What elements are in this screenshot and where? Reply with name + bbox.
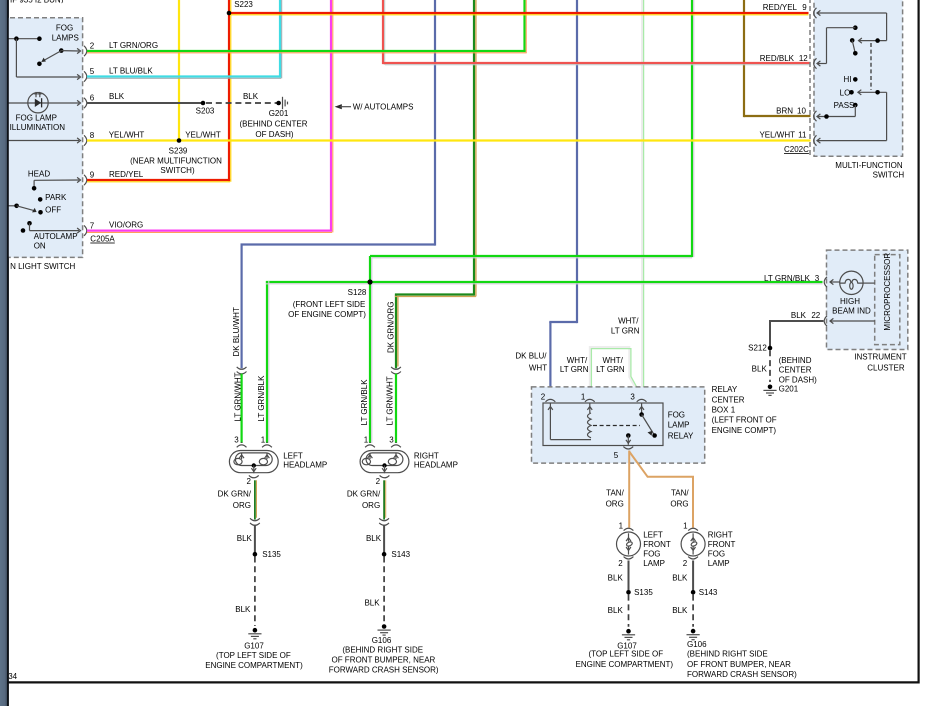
svg-text:SWITCH): SWITCH): [160, 166, 195, 175]
svg-text:ORG: ORG: [362, 501, 380, 510]
svg-text:G106: G106: [687, 640, 707, 649]
svg-text:BLK: BLK: [237, 534, 253, 543]
svg-text:CENTER: CENTER: [712, 395, 745, 404]
fog lamp illumination LED: [9, 102, 80, 104]
svg-text:S143: S143: [699, 588, 718, 597]
fog lamp relay contact and blade: [641, 403, 643, 415]
svg-text:LEFT: LEFT: [283, 451, 303, 460]
svg-text:LT GRN/BLK: LT GRN/BLK: [257, 375, 266, 422]
wire BRN multi-function switch pin10: [744, 115, 811, 117]
splice S143 right fog lamp: [691, 590, 696, 595]
svg-text:DK GRN/: DK GRN/: [347, 489, 381, 498]
splice S212: [768, 346, 773, 351]
svg-text:ENGINE COMPT): ENGINE COMPT): [712, 426, 777, 435]
svg-text:PARK: PARK: [45, 193, 67, 202]
svg-text:RED/YEL: RED/YEL: [109, 170, 144, 179]
w/ autolamps arrow note: [335, 104, 342, 109]
wire BLK dashed right fog lamp to G106: [692, 595, 694, 627]
svg-text:DK GRN/: DK GRN/: [218, 489, 252, 498]
instrument cluster pin22 BLK wire: [824, 316, 827, 326]
svg-text:11: 11: [798, 131, 807, 140]
svg-text:FORWARD CRASH SENSOR): FORWARD CRASH SENSOR): [329, 665, 439, 674]
wire RED/YEL pin9 to S223 and multi-function switch: [87, 179, 230, 181]
inline connector right headlamp pin2: [379, 518, 389, 520]
instrument cluster box: [827, 250, 908, 349]
svg-text:FRONT: FRONT: [708, 540, 736, 549]
high beam indicator bulb: [824, 277, 827, 287]
svg-text:S135: S135: [634, 588, 653, 597]
splice S135 left fog lamp: [626, 590, 631, 595]
svg-text:LT GRN/BLK: LT GRN/BLK: [764, 274, 811, 283]
svg-text:YEL/WHT: YEL/WHT: [109, 130, 145, 139]
svg-text:ORG: ORG: [233, 501, 251, 510]
svg-text:VIO/ORG: VIO/ORG: [109, 220, 143, 229]
pin 8 internal lead: [9, 140, 80, 142]
right front fog lamp: [681, 532, 705, 556]
svg-text:LAMPS: LAMPS: [52, 34, 79, 43]
svg-text:YEL/WHT: YEL/WHT: [185, 130, 221, 139]
svg-text:S203: S203: [196, 106, 215, 115]
svg-text:FOG: FOG: [643, 549, 660, 558]
svg-text:(BEHIND RIGHT SIDE: (BEHIND RIGHT SIDE: [342, 646, 423, 655]
svg-text:(NEAR MULTIFUNCTION: (NEAR MULTIFUNCTION: [130, 156, 222, 165]
multi-function switch box: [814, 0, 903, 156]
svg-text:RED/BLK: RED/BLK: [760, 54, 795, 63]
wire LT GRN/ORG pin2: [87, 50, 526, 52]
ground G107 left fog lamp: [626, 629, 631, 634]
svg-text:DK BLU/: DK BLU/: [515, 352, 547, 361]
svg-text:N LIGHT SWITCH: N LIGHT SWITCH: [10, 262, 75, 271]
inline connector left headlamp pin2: [250, 518, 260, 520]
svg-text:BLK: BLK: [364, 599, 380, 608]
svg-text:SWITCH: SWITCH: [873, 171, 905, 180]
svg-text:S135: S135: [262, 550, 281, 559]
svg-text:G201: G201: [779, 384, 799, 393]
svg-text:6: 6: [90, 94, 95, 103]
svg-text:BLK: BLK: [672, 606, 688, 615]
wire LT BLU/BLK pin5: [87, 75, 281, 77]
headlight switch box: [0, 18, 83, 258]
svg-text:BLK: BLK: [366, 534, 382, 543]
microprocessor box: [875, 255, 900, 345]
svg-text:LT GRN/WHT: LT GRN/WHT: [386, 376, 395, 425]
svg-text:10: 10: [797, 106, 806, 115]
svg-text:2: 2: [541, 393, 546, 402]
wire RED/BLK to multi-function switch pin12: [383, 62, 811, 64]
svg-text:1: 1: [581, 393, 586, 402]
svg-text:FOG: FOG: [56, 23, 73, 32]
svg-text:BEAM IND: BEAM IND: [832, 307, 871, 316]
svg-text:1: 1: [619, 521, 624, 530]
svg-text:WHT/: WHT/: [602, 356, 623, 365]
ground G106 right fog lamp: [691, 629, 696, 634]
svg-text:ON: ON: [34, 242, 46, 251]
svg-text:S223: S223: [234, 0, 253, 9]
svg-text:ILLUMINATION: ILLUMINATION: [10, 123, 66, 132]
svg-text:RELAY: RELAY: [668, 431, 694, 440]
svg-text:C202C: C202C: [784, 145, 809, 154]
svg-text:DK GRN/ORG: DK GRN/ORG: [386, 301, 395, 353]
svg-text:1: 1: [683, 521, 688, 530]
splice S143 right headlamp: [382, 552, 387, 557]
svg-text:OF DASH): OF DASH): [255, 130, 294, 139]
wire BLK dashed to G201 instrument cluster: [769, 350, 771, 382]
svg-text:3: 3: [815, 274, 820, 283]
ground G201 behind dash: [276, 101, 281, 106]
svg-text:INSTRUMENT: INSTRUMENT: [854, 353, 907, 362]
svg-text:BLK: BLK: [608, 606, 624, 615]
svg-text:8: 8: [90, 131, 95, 140]
svg-text:BLK: BLK: [791, 311, 807, 320]
splice S128: [367, 279, 372, 284]
left front fog lamp: [617, 532, 641, 556]
svg-text:G201: G201: [269, 109, 289, 118]
svg-text:CENTER: CENTER: [779, 366, 812, 375]
svg-text:(BEHIND RIGHT SIDE: (BEHIND RIGHT SIDE: [687, 650, 768, 659]
svg-text:22: 22: [811, 311, 820, 320]
wire WHT/LT GRN jumper relay pin1: [590, 347, 641, 399]
svg-text:S143: S143: [391, 550, 410, 559]
wire LT GRN/WHT to left headlamp pin3: [241, 374, 243, 443]
svg-text:HEAD: HEAD: [28, 169, 50, 178]
svg-text:OF FRONT BUMPER, NEAR: OF FRONT BUMPER, NEAR: [687, 660, 791, 669]
switch connector brackets and pin numbers: [84, 46, 87, 56]
splice S135 left headlamp: [253, 552, 258, 557]
svg-text:S212: S212: [748, 344, 767, 353]
left window edge bar overlay: [0, 0, 7, 706]
svg-text:LAMP: LAMP: [643, 559, 665, 568]
svg-text:G106: G106: [372, 636, 392, 645]
svg-text:5: 5: [614, 451, 619, 460]
svg-text:BRN: BRN: [776, 106, 793, 115]
svg-text:WHT: WHT: [529, 363, 547, 372]
svg-text:TAN/: TAN/: [671, 489, 689, 498]
wire BLK right headlamp to S143: [383, 525, 385, 554]
wire BLK dashed right headlamp to G106: [383, 557, 385, 623]
fog lamp switch contacts: [9, 38, 40, 40]
svg-text:(FRONT LEFT SIDE: (FRONT LEFT SIDE: [293, 300, 366, 309]
svg-text:HEADLAMP: HEADLAMP: [283, 460, 327, 469]
wire BLK left headlamp to S135: [254, 525, 256, 554]
svg-text:2: 2: [376, 477, 381, 486]
multi-function switch pin brackets: [814, 8, 817, 18]
svg-text:FOG: FOG: [668, 411, 685, 420]
svg-text:TAN/: TAN/: [606, 489, 624, 498]
svg-text:RELAY: RELAY: [712, 385, 738, 394]
svg-text:(LEFT FRONT OF: (LEFT FRONT OF: [712, 416, 777, 425]
svg-text:LT GRN: LT GRN: [611, 327, 640, 336]
left headlamp: [229, 451, 278, 473]
svg-text:S239: S239: [169, 146, 188, 155]
wire VIO/ORG pin7: [87, 230, 332, 232]
svg-text:12: 12: [799, 54, 808, 63]
svg-text:3: 3: [389, 435, 394, 444]
svg-text:BLK: BLK: [752, 364, 768, 373]
svg-text:ORG: ORG: [606, 499, 624, 508]
svg-text:LT GRN: LT GRN: [560, 365, 589, 374]
svg-text:OFF: OFF: [45, 205, 61, 214]
svg-text:FRONT: FRONT: [643, 540, 671, 549]
wire DK BLU/WHT to fog lamp relay pin2: [549, 321, 577, 323]
wire DK GRN/ORG to right headlamp: [395, 293, 474, 295]
svg-text:PASS: PASS: [834, 101, 855, 110]
svg-text:1: 1: [364, 435, 369, 444]
ground G201 center of dash: [768, 385, 773, 390]
svg-text:C205A: C205A: [90, 235, 115, 244]
svg-text:AUTOLAMP: AUTOLAMP: [34, 232, 78, 241]
svg-text:FOG LAMP: FOG LAMP: [16, 114, 57, 123]
svg-text:LT GRN: LT GRN: [596, 365, 625, 374]
svg-text:2: 2: [618, 559, 623, 568]
svg-text:BOX 1: BOX 1: [712, 405, 736, 414]
svg-text:DK BLU/WHT: DK BLU/WHT: [232, 307, 241, 356]
svg-text:7: 7: [90, 221, 95, 230]
svg-text:FOG: FOG: [708, 549, 725, 558]
svg-text:9: 9: [802, 3, 807, 12]
svg-text:LEFT: LEFT: [643, 530, 663, 539]
svg-text:HIGH: HIGH: [840, 297, 860, 306]
wire BLK dashed to G201: [206, 102, 277, 104]
svg-text:RIGHT: RIGHT: [708, 530, 733, 539]
svg-text:(BEHIND CENTER: (BEHIND CENTER: [239, 120, 307, 129]
multi-function switch internal dimmer circuit: [817, 10, 820, 15]
splice S223: [227, 11, 232, 16]
wire BLK dashed left fog lamp to G107: [628, 595, 630, 627]
diagram border bottom: [9, 681, 920, 683]
svg-text:ORG: ORG: [670, 499, 688, 508]
svg-text:2: 2: [683, 559, 688, 568]
svg-text:34: 34: [8, 672, 17, 681]
svg-text:LT BLU/BLK: LT BLU/BLK: [109, 67, 153, 76]
fog lamp relay inner box: [543, 403, 663, 446]
svg-text:(TOP LEFT SIDE OF: (TOP LEFT SIDE OF: [588, 650, 663, 659]
wire DK BLU/WHT to left headlamp: [241, 243, 436, 245]
vertical trunk wires from top edge: [178, 0, 180, 141]
wire BLK pin6 to S203: [87, 102, 203, 104]
svg-text:LT GRN/ORG: LT GRN/ORG: [109, 41, 158, 50]
svg-text:LT GRN/WHT: LT GRN/WHT: [234, 372, 243, 421]
svg-text:3: 3: [234, 435, 239, 444]
svg-text:S128: S128: [348, 288, 367, 297]
wire TAN/ORG relay pin5 to fog lamps: [628, 451, 630, 528]
svg-text:RIGHT: RIGHT: [414, 451, 439, 460]
relay center box 1: [532, 387, 705, 463]
svg-text:G107: G107: [244, 641, 264, 650]
wire LT GRN/BLK trunk S128 to instrument cluster: [370, 255, 692, 257]
splice S239: [177, 138, 182, 143]
svg-text:HEADLAMP: HEADLAMP: [414, 460, 458, 469]
diagram border right: [917, 0, 919, 684]
svg-text:WHT/: WHT/: [567, 356, 588, 365]
wire BLK left fog lamp to S135: [628, 561, 630, 593]
svg-text:ENGINE COMPARTMENT): ENGINE COMPARTMENT): [205, 661, 303, 670]
svg-text:2: 2: [246, 477, 251, 486]
svg-text:9: 9: [90, 171, 95, 180]
svg-text:MULTI-FUNCTION: MULTI-FUNCTION: [835, 161, 903, 170]
svg-text:OF DASH): OF DASH): [779, 375, 818, 384]
ground G106 right headlamp: [382, 624, 387, 629]
wire YEL/WHT pin8 to multi-function switch: [87, 139, 811, 141]
svg-text:(TOP LEFT SIDE OF: (TOP LEFT SIDE OF: [216, 651, 291, 660]
svg-text:5: 5: [90, 67, 95, 76]
svg-text:CLUSTER: CLUSTER: [867, 364, 905, 373]
wire LT GRN/WHT to right headlamp pin3: [395, 374, 397, 443]
svg-text:ENGINE COMPARTMENT): ENGINE COMPARTMENT): [576, 660, 674, 669]
svg-text:RED/YEL: RED/YEL: [763, 3, 798, 12]
svg-text:OF FRONT BUMPER, NEAR: OF FRONT BUMPER, NEAR: [331, 655, 435, 664]
wire LT GRN/BLK to left headlamp pin1: [266, 281, 268, 443]
svg-text:LAMP: LAMP: [668, 421, 690, 430]
svg-text:LAMP: LAMP: [708, 559, 730, 568]
inline connector right headlamp pin3 wire: [391, 367, 401, 369]
svg-text:WHT/: WHT/: [618, 317, 639, 326]
svg-text:OF ENGINE COMPT): OF ENGINE COMPT): [288, 310, 366, 319]
svg-text:BLK: BLK: [235, 605, 251, 614]
svg-text:LT GRN/BLK: LT GRN/BLK: [360, 379, 369, 426]
svg-text:BLK: BLK: [672, 574, 688, 583]
svg-text:HI: HI: [844, 75, 852, 84]
svg-text:1: 1: [261, 435, 266, 444]
right headlamp: [360, 451, 409, 473]
wire BLK dashed left headlamp to G107: [254, 557, 256, 627]
wire BLK right fog lamp to S143: [692, 561, 694, 593]
svg-text:3: 3: [630, 393, 635, 402]
fog lamp relay pin5: [626, 433, 631, 438]
svg-text:BLK: BLK: [608, 574, 624, 583]
inline connector left headlamp pin3 wire: [237, 367, 247, 369]
svg-text:W/ AUTOLAMPS: W/ AUTOLAMPS: [353, 103, 414, 112]
fog lamp relay coil circuit: [549, 403, 551, 440]
svg-text:2: 2: [90, 42, 95, 51]
svg-text:(BEHIND: (BEHIND: [779, 356, 812, 365]
svg-text:BLK: BLK: [243, 92, 259, 101]
svg-text:MICROPROCESSOR: MICROPROCESSOR: [883, 253, 892, 331]
svg-text:FORWARD CRASH SENSOR): FORWARD CRASH SENSOR): [687, 670, 797, 679]
splice S203: [201, 101, 206, 106]
svg-text:LO: LO: [840, 88, 851, 97]
ground G107 left headlamp: [253, 628, 258, 633]
svg-text:YEL/WHT: YEL/WHT: [759, 131, 795, 140]
svg-text:BLK: BLK: [109, 92, 125, 101]
